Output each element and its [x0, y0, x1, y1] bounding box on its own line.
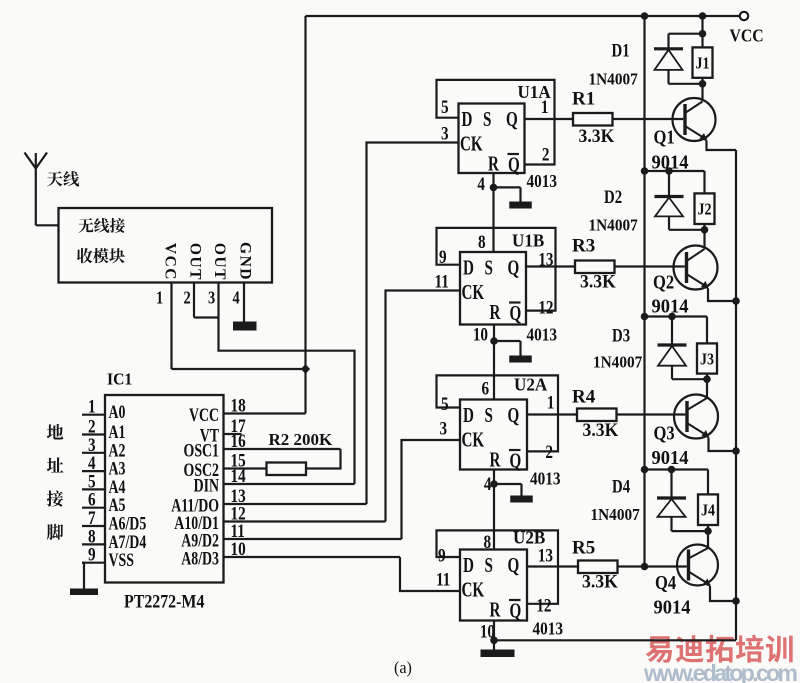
U1A R pin wire: [492, 173, 494, 252]
node collector junction 2: [701, 226, 709, 234]
svg-text:11: 11: [436, 569, 450, 590]
IC1 pin 4 stub: [82, 470, 105, 472]
resistor R1 body: [573, 113, 613, 126]
right emitter bus: [735, 150, 737, 640]
U2A R pin wire: [493, 470, 495, 550]
IC1 pin 15 stub: [224, 467, 267, 469]
svg-text:A0: A0: [109, 401, 126, 422]
node D1 top junction: [699, 30, 707, 38]
wire A9/D2 to U2A CK: [402, 440, 461, 539]
U1B Q output wire: [526, 265, 575, 267]
transistor Q3 emitter arrow: [702, 430, 710, 439]
svg-text:8: 8: [478, 231, 486, 252]
transistor Q4 base bar: [687, 550, 690, 581]
svg-text:9014: 9014: [654, 597, 692, 619]
svg-text:5: 5: [441, 393, 449, 414]
VCC riser: [304, 16, 306, 369]
svg-text:www.edatop.com: www.edatop.com: [643, 660, 798, 683]
ground at U2B R: [481, 650, 515, 658]
svg-text:3.3K: 3.3K: [583, 419, 620, 440]
svg-text:OUT: OUT: [187, 243, 204, 281]
diode D1 triangle: [655, 50, 683, 70]
IC1 pin 10 stub: [224, 556, 401, 558]
node emitter bus 3: [732, 447, 740, 455]
VCC terminal: [740, 12, 748, 20]
transistor Q1 collector diagonal: [685, 102, 703, 114]
watermark 易迪拓培训: [646, 636, 672, 663]
wire bus to J2: [645, 170, 705, 172]
svg-text:J4: J4: [701, 502, 715, 520]
transistor Q3 collector diagonal: [687, 398, 707, 410]
node U1B R junction: [490, 337, 498, 345]
svg-text:2: 2: [184, 287, 191, 308]
relay J2 bottom lead: [703, 224, 705, 230]
diode D2 triangle: [655, 198, 683, 217]
diode D2 cathode lead: [668, 171, 670, 197]
svg-text:R: R: [490, 301, 502, 324]
transistor Q4 circle: [677, 545, 718, 586]
wire OUT to DIN: [219, 318, 355, 485]
transistor Q4 collector lead: [707, 531, 709, 547]
relay J4 box: [698, 494, 718, 525]
node D2 top junction: [665, 167, 673, 175]
svg-text:S: S: [485, 554, 493, 577]
svg-text:10: 10: [473, 324, 488, 345]
transistor Q2 emitter wire: [708, 289, 736, 302]
node rail-left bus: [641, 12, 649, 20]
svg-text:R5: R5: [572, 538, 595, 559]
svg-text:1N4007: 1N4007: [589, 71, 638, 89]
IC1 pin 3 stub: [82, 452, 105, 454]
flip-flop U1A box: [459, 104, 525, 174]
IC1 pin 18 stub: [224, 412, 306, 414]
flip-flop U2A box: [460, 400, 527, 470]
wire relay J2 top lead: [703, 171, 705, 193]
svg-text:J1: J1: [695, 55, 709, 73]
transistor Q4 collector diagonal: [689, 548, 709, 559]
wire relay J3 top lead: [706, 317, 708, 344]
svg-text:DIN: DIN: [194, 475, 220, 496]
U1A Q output wire: [525, 118, 574, 120]
svg-text:3: 3: [208, 287, 215, 308]
svg-text:1N4007: 1N4007: [589, 217, 638, 235]
IC1 pin 8 stub: [82, 543, 105, 545]
wireless receiver module box: [59, 208, 273, 283]
svg-text:D: D: [463, 256, 474, 279]
svg-text:1: 1: [547, 392, 555, 413]
relay J1 bottom lead: [701, 78, 703, 84]
svg-text:8: 8: [484, 531, 492, 552]
svg-text:6: 6: [482, 378, 490, 399]
svg-text:VSS: VSS: [109, 549, 134, 570]
svg-text:D: D: [462, 108, 473, 131]
svg-text:D: D: [463, 554, 474, 577]
transistor Q3 base bar: [685, 401, 688, 432]
transistor Q4 emitter wire: [710, 586, 736, 601]
svg-text:D1: D1: [612, 40, 630, 61]
svg-text:CK: CK: [462, 428, 485, 451]
svg-text:U2A: U2A: [514, 374, 548, 395]
svg-text:14: 14: [231, 465, 247, 486]
svg-text:A8/D3: A8/D3: [181, 548, 219, 569]
receiver pin 3 stub: [217, 283, 219, 318]
diode D3 anode lead: [671, 366, 673, 380]
svg-text:3: 3: [440, 418, 448, 439]
transistor Q3 circle: [674, 395, 718, 439]
wire diode to relay bottom: [669, 229, 705, 231]
svg-text:U1B: U1B: [512, 230, 545, 251]
svg-text:11: 11: [435, 271, 449, 292]
svg-text:CK: CK: [462, 578, 485, 601]
svg-text:GND: GND: [237, 242, 254, 281]
node collector junction 1: [699, 80, 707, 88]
receiver label 收模块: [77, 248, 92, 263]
svg-text:1N4007: 1N4007: [593, 354, 642, 372]
svg-text:R1: R1: [572, 89, 595, 110]
svg-text:1: 1: [88, 396, 96, 417]
svg-text:Q1: Q1: [654, 126, 675, 148]
svg-text:VCC: VCC: [189, 404, 219, 425]
ground at U2A R: [494, 483, 522, 485]
U2B Q output wire: [527, 565, 578, 567]
svg-text:16: 16: [231, 430, 247, 451]
node bus tap D3: [641, 313, 649, 321]
svg-text:Q: Q: [508, 554, 520, 577]
wire relay J4 top lead: [707, 470, 709, 495]
svg-text:CK: CK: [462, 281, 485, 304]
svg-text:Q: Q: [510, 449, 522, 472]
IC1 pin 7 stub: [82, 525, 105, 527]
transistor Q3 emitter wire: [709, 438, 737, 452]
svg-text:Q: Q: [508, 256, 520, 279]
svg-text:D2: D2: [604, 186, 622, 207]
IC1 pin 2 stub: [82, 433, 105, 435]
node collector junction 4: [704, 527, 712, 535]
U1B R pin wire: [493, 325, 495, 400]
IC1 pin 17 stub: [224, 433, 242, 435]
flip-flop U1B feedback loop D-to-Qbar: [437, 228, 556, 311]
resistor R4 body: [577, 409, 617, 422]
svg-text:13: 13: [538, 545, 553, 566]
svg-text:Q3: Q3: [654, 422, 675, 444]
IC1 VSS ground: [82, 562, 84, 564]
svg-text:VCC: VCC: [161, 243, 178, 281]
svg-text:12: 12: [538, 297, 553, 318]
transistor Q1 base bar: [683, 104, 686, 135]
IC1 pin 11 stub: [224, 538, 402, 540]
node U1A R junction: [490, 184, 498, 192]
IC1 PT2272-M4 box: [105, 395, 224, 583]
transistor Q2 collector diagonal: [687, 249, 705, 261]
relay J1 box: [693, 47, 713, 77]
left VCC bus: [643, 16, 645, 567]
svg-text:Q2: Q2: [653, 271, 674, 293]
wire A10/D1 to U1B CK: [386, 291, 461, 522]
svg-text:3.3K: 3.3K: [579, 125, 616, 146]
svg-text:9: 9: [438, 545, 446, 566]
svg-text:IC1: IC1: [107, 371, 132, 388]
IC1 pin 6 stub: [82, 507, 105, 509]
U2B R pin wire: [493, 621, 495, 641]
svg-text:3: 3: [441, 123, 449, 144]
node bus tap D2: [641, 167, 649, 175]
transistor Q1 emitter diagonal: [685, 126, 707, 140]
flip-flop U2A feedback loop D-to-Qbar: [437, 375, 559, 451]
svg-text:J2: J2: [697, 201, 711, 219]
wire junction down to IC pin 18: [304, 369, 306, 414]
antenna label 天线: [47, 171, 63, 186]
wire pin1 to junction: [172, 368, 306, 370]
diode D3 cathode bar: [658, 343, 687, 346]
IC1 pin 13 stub: [224, 503, 367, 505]
IC1 pin 1 stub: [82, 414, 105, 416]
svg-text:1: 1: [156, 287, 163, 308]
wire A8/D3 to U2B CK: [400, 557, 460, 591]
svg-text:4013: 4013: [533, 618, 564, 638]
relay J4 bottom lead: [707, 525, 709, 531]
diode D3 cathode lead: [671, 317, 673, 346]
transistor Q2 collector lead: [703, 230, 705, 249]
wire diode to relay bottom: [672, 530, 709, 532]
transistor Q2 emitter arrow: [701, 281, 709, 290]
svg-text:4013: 4013: [527, 171, 558, 191]
svg-text:Q4: Q4: [655, 572, 676, 594]
svg-text:Q: Q: [506, 108, 518, 131]
transistor Q2 emitter diagonal: [687, 274, 709, 288]
svg-text:CK: CK: [460, 132, 483, 155]
transistor Q1 collector lead: [701, 84, 703, 101]
wire diode to relay bottom: [672, 378, 707, 380]
wire resistor R3 to base: [615, 265, 685, 267]
transistor Q3 emitter diagonal: [687, 423, 709, 437]
resistor R3 body: [575, 261, 615, 274]
svg-text:R2 200K: R2 200K: [269, 430, 334, 449]
svg-text:4013: 4013: [527, 324, 558, 344]
svg-text:3.3K: 3.3K: [582, 571, 619, 592]
svg-text:4: 4: [233, 287, 240, 308]
transistor Q1 emitter wire: [707, 141, 737, 151]
top VCC rail: [306, 15, 745, 17]
svg-text:PT2272-M4: PT2272-M4: [124, 591, 205, 611]
svg-text:Q: Q: [510, 599, 522, 622]
transistor Q3 collector lead: [706, 379, 708, 397]
svg-text:4: 4: [477, 173, 485, 194]
svg-text:4013: 4013: [530, 468, 561, 488]
svg-text:R: R: [490, 598, 502, 621]
diode D4 cathode bar: [657, 496, 686, 499]
diode D4 triangle: [658, 499, 686, 517]
svg-text:R4: R4: [572, 387, 596, 408]
resistor R5 body: [578, 561, 618, 574]
diode D3 triangle: [658, 346, 686, 366]
ground at U1B R: [494, 340, 521, 342]
svg-text:Q: Q: [510, 302, 522, 325]
svg-text:2: 2: [545, 441, 553, 462]
relay J2 box: [695, 193, 715, 224]
svg-text:S: S: [483, 108, 491, 131]
flip-flop U2B feedback loop D-to-Qbar: [437, 530, 559, 603]
node collector junction 3: [703, 375, 711, 383]
diode D4 anode lead: [670, 517, 672, 531]
node emitter bus 2: [732, 297, 740, 305]
svg-text:OSC1: OSC1: [184, 440, 219, 461]
svg-text:9: 9: [88, 544, 96, 565]
svg-text:D: D: [463, 404, 474, 427]
wire rail to J1: [701, 16, 703, 47]
svg-text:(a): (a): [394, 658, 412, 677]
relay J3 bottom lead: [706, 374, 708, 380]
svg-text:9: 9: [439, 246, 447, 267]
svg-text:R: R: [490, 448, 502, 471]
svg-text:VCC: VCC: [730, 26, 764, 46]
vertical label 地址接脚: [47, 424, 63, 439]
flip-flop U2B box: [460, 550, 527, 621]
svg-text:Q: Q: [508, 153, 520, 176]
wire bus to J4: [645, 468, 709, 470]
ground at receiver GND: [233, 322, 257, 331]
svg-text:R3: R3: [572, 236, 595, 257]
relay J3 box: [697, 343, 717, 373]
transistor Q2 base bar: [685, 252, 688, 283]
receiver pin 1 stub: [170, 283, 172, 370]
svg-text:S: S: [485, 404, 493, 427]
U2A Q output wire: [527, 413, 577, 415]
receiver pin 4 stub: [243, 283, 245, 322]
receiver pin 2 stub: [193, 283, 195, 318]
transistor Q4 emitter diagonal: [689, 572, 711, 586]
antenna: [25, 153, 48, 169]
flip-flop U1A feedback loop D-to-Qbar: [437, 80, 555, 165]
bottom rail: [494, 639, 736, 641]
svg-text:S: S: [485, 256, 493, 279]
ground at U1A R: [494, 186, 521, 188]
wire joining OUT pins: [194, 316, 219, 318]
node bus end at Q4 base: [641, 563, 649, 571]
wire A11/DO to U1A CK: [367, 143, 460, 505]
diode D1 cathode lead: [667, 34, 669, 49]
node emitter bus 4: [732, 597, 740, 605]
svg-text:R: R: [488, 152, 500, 175]
wire D1 top connector: [669, 33, 703, 35]
svg-text:OUT: OUT: [211, 243, 228, 281]
IC1 pin 9 stub: [82, 562, 105, 564]
flip-flop U1B box: [460, 252, 526, 325]
wire resistor R1 to base: [613, 118, 684, 120]
svg-text:2: 2: [542, 144, 550, 165]
transistor Q1 emitter arrow: [700, 133, 708, 142]
node rail-J1: [699, 12, 707, 20]
svg-text:3.3K: 3.3K: [580, 271, 617, 292]
svg-text:1N4007: 1N4007: [591, 506, 640, 524]
receiver label 无线接: [79, 218, 94, 233]
wire bus to J3: [645, 315, 708, 317]
IC1 pin 5 stub: [82, 488, 105, 490]
IC1 pin 16 stub: [224, 448, 341, 450]
svg-text:1: 1: [541, 96, 549, 117]
transistor Q4 emitter arrow: [703, 579, 711, 588]
wire antenna to receiver: [36, 224, 59, 226]
wire OSC1 to R2: [306, 449, 341, 469]
node D3 top junction: [668, 313, 676, 321]
svg-text:Q: Q: [508, 404, 520, 427]
diode D2 cathode bar: [655, 195, 684, 198]
node U2B R junction: [490, 637, 498, 645]
diode D1 cathode bar: [654, 47, 683, 50]
svg-text:D3: D3: [612, 325, 630, 346]
transistor Q2 circle: [674, 246, 718, 290]
IC1 pin 14 stub: [224, 483, 355, 485]
wire resistor R5 to base: [618, 565, 687, 567]
node bus tap D4: [641, 466, 649, 474]
svg-text:5: 5: [441, 96, 449, 117]
wire diode to relay bottom: [669, 83, 703, 85]
IC1 pin 12 stub: [224, 520, 386, 522]
svg-text:12: 12: [536, 595, 551, 616]
node VCC junction diamond: [301, 364, 310, 374]
svg-text:D4: D4: [612, 476, 631, 497]
svg-text:J3: J3: [700, 350, 714, 368]
diode D4 cathode lead: [670, 470, 672, 499]
transistor Q1 circle: [673, 98, 716, 141]
resistor R2 body: [267, 463, 307, 476]
node U2A R junction: [490, 480, 498, 488]
diode D2 anode lead: [668, 216, 670, 229]
wire resistor R4 to base: [617, 413, 686, 415]
node D4 top junction: [668, 466, 676, 474]
svg-text:10: 10: [231, 538, 246, 559]
svg-text:9014: 9014: [652, 448, 690, 470]
svg-text:18: 18: [231, 395, 247, 416]
diode D1 anode lead: [667, 70, 669, 84]
